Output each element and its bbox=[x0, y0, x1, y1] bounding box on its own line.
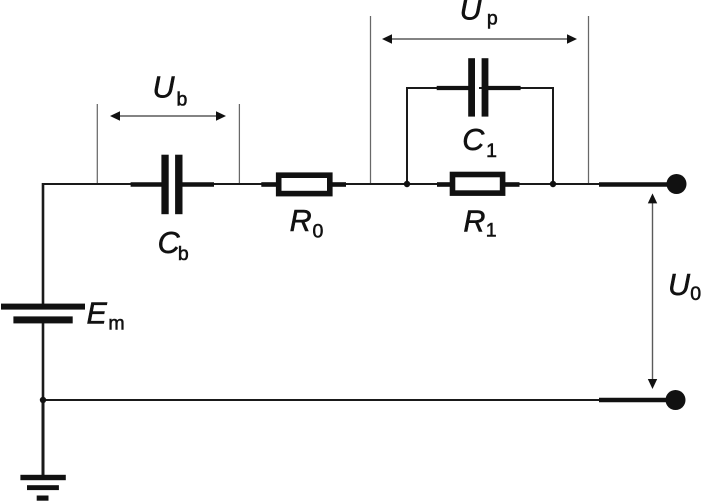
svg-text:U: U bbox=[153, 71, 176, 105]
svg-text:b: b bbox=[178, 243, 189, 265]
svg-text:C: C bbox=[462, 123, 485, 157]
svg-text:b: b bbox=[177, 89, 188, 111]
svg-text:m: m bbox=[108, 313, 124, 335]
svg-text:1: 1 bbox=[486, 140, 497, 162]
svg-text:1: 1 bbox=[486, 220, 497, 242]
svg-text:U: U bbox=[668, 268, 691, 302]
svg-text:0: 0 bbox=[690, 283, 701, 305]
svg-text:0: 0 bbox=[313, 220, 324, 242]
svg-text:R: R bbox=[290, 204, 312, 238]
svg-text:R: R bbox=[463, 204, 485, 238]
svg-text:U: U bbox=[460, 0, 483, 27]
svg-text:p: p bbox=[487, 8, 498, 30]
svg-text:E: E bbox=[87, 297, 108, 331]
